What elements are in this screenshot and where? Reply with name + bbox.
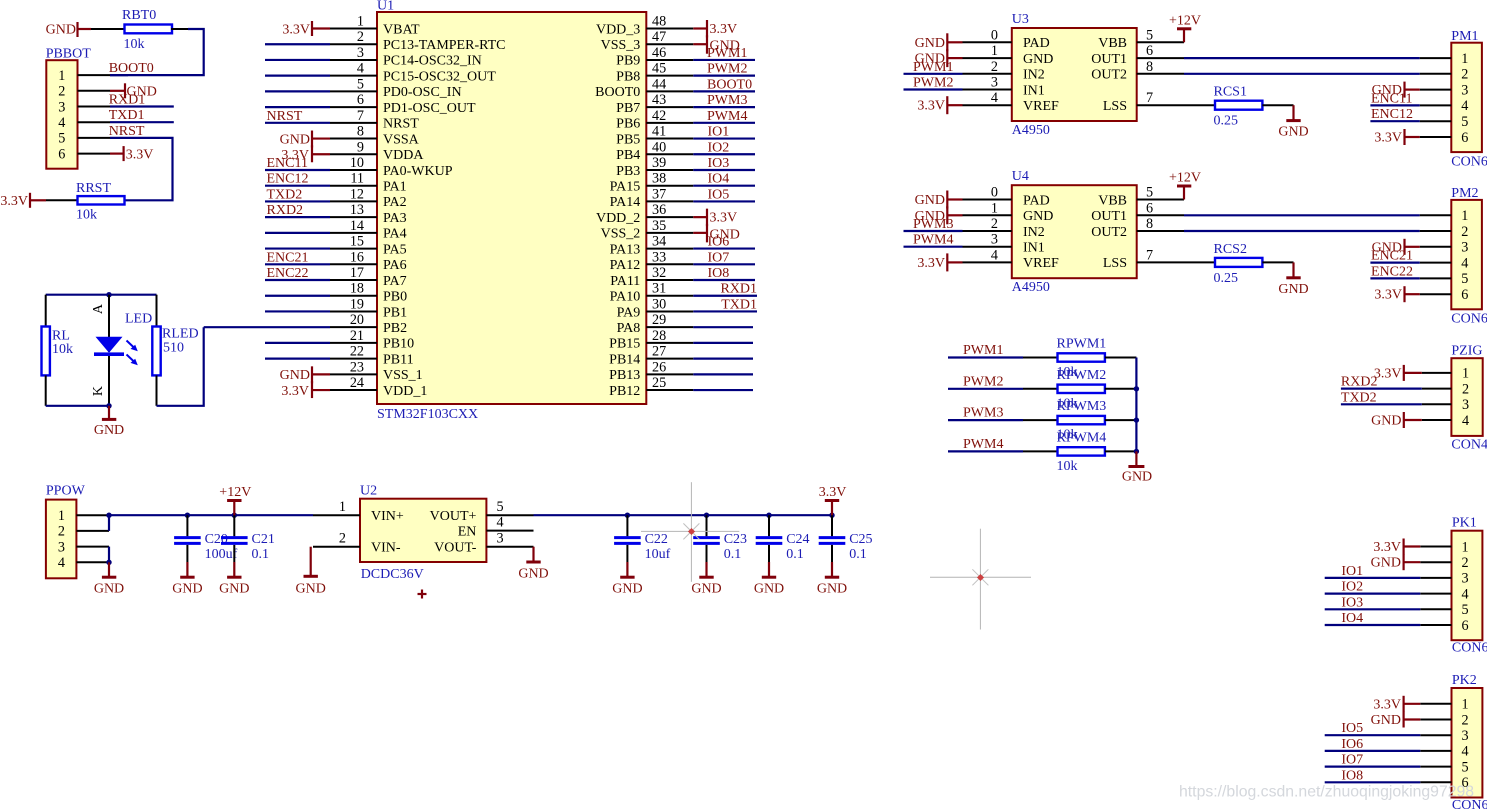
svg-text:1: 1 — [357, 14, 364, 30]
svg-text:PWM1: PWM1 — [913, 60, 953, 75]
svg-text:3.3V: 3.3V — [1374, 131, 1402, 146]
svg-text:STM32F103CXX: STM32F103CXX — [377, 407, 478, 422]
svg-text:GND: GND — [817, 581, 847, 596]
svg-text:2: 2 — [991, 59, 998, 75]
svg-text:C24: C24 — [786, 532, 809, 547]
wire LED bottom rail — [46, 405, 109, 407]
wire IO5 (PK2 pin 3) — [1325, 734, 1421, 736]
wire NRST (U1 pin 7) — [265, 122, 330, 124]
svg-text:ENC12: ENC12 — [267, 172, 309, 187]
svg-text:3: 3 — [991, 232, 998, 248]
driver U3 body — [1012, 28, 1137, 121]
svg-text:4: 4 — [1462, 413, 1469, 429]
wire U1 pin 3 — [265, 59, 330, 61]
svg-text:21: 21 — [350, 328, 364, 344]
power port GND (U2 VIN-) — [310, 547, 312, 577]
svg-text:2: 2 — [1462, 381, 1469, 397]
wire RPWM2 to tie — [1105, 388, 1137, 390]
svg-text:2: 2 — [58, 524, 65, 540]
svg-text:3.3V: 3.3V — [282, 22, 310, 37]
svg-text:CON6: CON6 — [1452, 641, 1487, 656]
svg-text:3: 3 — [1461, 82, 1468, 98]
svg-text:3: 3 — [1461, 240, 1468, 256]
svg-text:RCS2: RCS2 — [1214, 242, 1247, 257]
svg-text:DCDC36V: DCDC36V — [361, 567, 424, 582]
svg-text:PB15: PB15 — [609, 337, 640, 352]
svg-text:27: 27 — [652, 344, 666, 360]
svg-text:+12V: +12V — [219, 485, 251, 500]
svg-text:GND: GND — [46, 23, 76, 38]
junction +12V rail at PPOW — [106, 513, 111, 518]
wire IO2 (U1 pin 40) — [693, 153, 755, 155]
svg-text:7: 7 — [357, 108, 364, 124]
svg-text:0.25: 0.25 — [1214, 114, 1239, 129]
svg-text:GND: GND — [296, 582, 326, 597]
wire IO2 (PK1 pin 4) — [1325, 592, 1421, 594]
svg-text:12: 12 — [350, 186, 364, 202]
svg-text:5: 5 — [1461, 114, 1468, 130]
svg-text:25: 25 — [652, 375, 666, 391]
U4 pin 6 (OUT1) — [1137, 214, 1184, 216]
U1 pin 16 (PA6) — [330, 263, 377, 265]
svg-text:GND: GND — [1371, 556, 1401, 571]
U3 pin 8 (OUT2) — [1137, 73, 1184, 75]
svg-text:A4950: A4950 — [1012, 123, 1050, 138]
svg-text:LSS: LSS — [1103, 256, 1127, 271]
power port GND (PK2 pin 2) — [1404, 718, 1421, 720]
svg-text:3: 3 — [991, 75, 998, 91]
power port 3.3V (PM1 pin 6) — [1405, 136, 1420, 138]
svg-text:PA2: PA2 — [383, 195, 407, 210]
svg-text:PB5: PB5 — [616, 132, 640, 147]
svg-text:IO1: IO1 — [708, 125, 730, 140]
svg-text:44: 44 — [652, 76, 666, 92]
U1 pin 15 (PA5) — [330, 248, 377, 250]
svg-text:23: 23 — [350, 359, 364, 375]
svg-text:PA8: PA8 — [617, 321, 641, 336]
svg-text:4: 4 — [1461, 586, 1468, 602]
svg-text:C23: C23 — [724, 532, 747, 547]
svg-text:PWM4: PWM4 — [707, 109, 747, 124]
LED light arrows — [127, 341, 138, 366]
svg-text:PWM2: PWM2 — [963, 374, 1003, 389]
svg-text:RCS1: RCS1 — [1214, 85, 1247, 100]
svg-text:0.1: 0.1 — [786, 547, 804, 562]
svg-text:VDDA: VDDA — [383, 148, 424, 163]
U1 pin 23 (VSS_1) — [330, 373, 377, 375]
U1 pin 38 (PA15) — [646, 185, 693, 187]
wire 3.3V to RRST — [46, 199, 78, 201]
svg-text:U3: U3 — [1012, 12, 1029, 27]
svg-text:TXD2: TXD2 — [1341, 390, 1377, 405]
wire OUT2 to PM1 — [1184, 73, 1420, 75]
svg-text:RXD1: RXD1 — [720, 282, 757, 297]
svg-text:29: 29 — [652, 312, 666, 328]
svg-text:36: 36 — [652, 202, 666, 218]
U1 pin 36 (VDD_2) — [646, 216, 693, 218]
U1 pin 14 (PA4) — [330, 232, 377, 234]
svg-text:EN: EN — [458, 524, 477, 539]
wire U1 pin 6 — [265, 106, 330, 108]
connector PK2 — [1452, 688, 1483, 798]
svg-text:6: 6 — [58, 146, 65, 162]
svg-text:IO1: IO1 — [1341, 564, 1363, 579]
U1 pin 11 (PA1) — [330, 185, 377, 187]
svg-text:IO6: IO6 — [708, 235, 730, 250]
wire PWM1 (U1 pin 46) — [693, 59, 755, 61]
svg-text:3: 3 — [1462, 397, 1469, 413]
U3 pin 3 (IN1) — [963, 89, 1012, 91]
svg-text:PB11: PB11 — [383, 352, 414, 367]
svg-text:RBT0: RBT0 — [122, 8, 156, 23]
svg-text:IO4: IO4 — [1341, 611, 1363, 626]
svg-text:GND: GND — [1023, 209, 1053, 224]
svg-text:RPWM1: RPWM1 — [1057, 337, 1107, 352]
svg-text:1: 1 — [991, 43, 998, 59]
svg-text:3.3V: 3.3V — [281, 384, 309, 399]
svg-text:15: 15 — [350, 234, 364, 250]
svg-text:10k: 10k — [76, 208, 97, 223]
svg-text:IO2: IO2 — [1341, 580, 1363, 595]
svg-text:22: 22 — [350, 344, 364, 360]
U1 pin 17 (PA7) — [330, 279, 377, 281]
svg-text:U2: U2 — [360, 484, 377, 499]
svg-text:LED: LED — [125, 312, 152, 327]
U1 pin 3 (PC14-OSC32_IN) — [330, 59, 377, 61]
svg-text:38: 38 — [652, 171, 666, 187]
U4 pin 1 (GND) — [963, 214, 1012, 216]
wire PWM4 to RPWM4 — [948, 450, 1023, 452]
svg-text:13: 13 — [350, 202, 364, 218]
svg-text:PB3: PB3 — [616, 164, 640, 179]
resistor RRST — [78, 196, 125, 204]
svg-text:6: 6 — [1461, 130, 1468, 146]
capacitor C20 — [185, 513, 190, 518]
svg-text:ENC22: ENC22 — [267, 266, 309, 281]
svg-text:PB0: PB0 — [383, 290, 407, 305]
power port GND (U2 VOUT-) — [532, 547, 534, 562]
svg-text:PA0-WKUP: PA0-WKUP — [383, 164, 453, 179]
U1 pin 12 (PA2) — [330, 200, 377, 202]
U1 pin 24 (VDD_1) — [330, 389, 377, 391]
svg-text:GND: GND — [1371, 713, 1401, 728]
U1 pin 4 (PC15-OSC32_OUT) — [330, 75, 377, 77]
wire IO3 (PK1 pin 5) — [1325, 608, 1421, 610]
wire RPWM tie bus — [1135, 358, 1137, 452]
svg-text:1: 1 — [339, 499, 346, 515]
svg-text:0: 0 — [991, 185, 998, 201]
resistor RPWM2 — [1058, 385, 1105, 393]
svg-text:RPWM2: RPWM2 — [1057, 368, 1107, 383]
U4 pin 7 (LSS) — [1137, 261, 1184, 263]
svg-text:PC15-OSC32_OUT: PC15-OSC32_OUT — [383, 69, 496, 84]
svg-text:CON6: CON6 — [1451, 312, 1487, 327]
svg-text:46: 46 — [652, 45, 666, 61]
svg-text:PA11: PA11 — [610, 274, 640, 289]
svg-text:TXD2: TXD2 — [267, 187, 303, 202]
connector PPOW — [46, 500, 77, 579]
svg-text:VIN-: VIN- — [371, 541, 401, 556]
svg-text:PA9: PA9 — [617, 305, 641, 320]
power port GND (C25) — [831, 562, 833, 577]
svg-text:BOOT0: BOOT0 — [707, 77, 752, 92]
svg-text:IO2: IO2 — [708, 140, 730, 155]
wire U1 pin 25 — [693, 389, 753, 391]
U1 pin 34 (PA13) — [646, 248, 693, 250]
junction RPWM2 tie — [1134, 386, 1139, 391]
svg-text:RXD2: RXD2 — [267, 203, 304, 218]
wire PPOW pins 3-4 tie — [108, 547, 110, 563]
svg-text:37: 37 — [652, 186, 666, 202]
wire PWM3 (U4 IN2) — [904, 230, 963, 232]
svg-text:4: 4 — [58, 115, 65, 131]
wire U1 pin 2 — [265, 43, 330, 45]
svg-text:PB9: PB9 — [616, 54, 640, 69]
svg-text:PB7: PB7 — [616, 101, 640, 116]
wire U1 pin 14 — [265, 232, 330, 234]
wire U1 pin 5 — [265, 90, 330, 92]
svg-text:3.3V: 3.3V — [710, 210, 738, 225]
wire U1 pin 29 — [693, 326, 753, 328]
svg-text:5: 5 — [1461, 602, 1468, 618]
svg-text:PWM1: PWM1 — [963, 343, 1003, 358]
svg-text:10uf: 10uf — [645, 547, 671, 562]
U1 pin 1 (VBAT) — [330, 28, 377, 30]
U1 pin 2 (PC13-TAMPER-RTC) — [330, 43, 377, 45]
svg-text:ENC12: ENC12 — [1371, 107, 1413, 122]
svg-text:PK1: PK1 — [1452, 516, 1477, 531]
svg-text:PWM3: PWM3 — [707, 93, 747, 108]
U1 pin 47 (VSS_3) — [646, 43, 693, 45]
svg-text:3: 3 — [1461, 728, 1468, 744]
svg-text:PA13: PA13 — [610, 242, 641, 257]
svg-text:PB13: PB13 — [609, 368, 640, 383]
svg-text:RXD2: RXD2 — [1341, 375, 1378, 390]
U1 pin 8 (VSSA) — [330, 138, 377, 140]
svg-text:1: 1 — [991, 200, 998, 216]
svg-text:4: 4 — [991, 247, 998, 263]
wire OUT1 to PM2 — [1184, 214, 1420, 216]
power port GND (PK1 pin 2) — [1404, 561, 1421, 563]
U1 pin 7 (NRST) — [330, 122, 377, 124]
svg-text:3.3V: 3.3V — [710, 22, 738, 37]
svg-text:VREF: VREF — [1023, 256, 1059, 271]
resistor RPWM3 — [1058, 416, 1105, 424]
resistor RLED — [156, 295, 158, 327]
svg-text:48: 48 — [652, 14, 666, 30]
svg-text:RPWM4: RPWM4 — [1057, 430, 1107, 445]
svg-text:4: 4 — [497, 515, 504, 531]
svg-text:34: 34 — [652, 234, 666, 250]
svg-text:3.3V: 3.3V — [1374, 288, 1402, 303]
svg-text:U1: U1 — [377, 0, 394, 14]
svg-text:BOOT0: BOOT0 — [595, 85, 640, 100]
U1 pin 10 (PA0-WKUP) — [330, 169, 377, 171]
svg-text:GND: GND — [754, 581, 784, 596]
power port 3.3V (U3 VREF) — [947, 104, 962, 106]
svg-text:PA3: PA3 — [383, 211, 407, 226]
regulator U2 body — [360, 499, 486, 562]
svg-text:3.3V: 3.3V — [1373, 697, 1401, 712]
resistor RBT0 — [125, 25, 173, 34]
svg-text:VBB: VBB — [1098, 36, 1127, 51]
U1 pin 48 (VDD_3) — [646, 28, 693, 30]
svg-text:3: 3 — [1461, 571, 1468, 587]
svg-text:3.3V: 3.3V — [126, 147, 154, 162]
svg-text:28: 28 — [652, 328, 666, 344]
svg-text:VSS_1: VSS_1 — [383, 368, 423, 383]
svg-text:GND: GND — [1278, 125, 1308, 140]
svg-text:+12V: +12V — [1169, 171, 1201, 186]
U2 pin 4 (EN) — [486, 530, 533, 532]
U1 pin 26 (PB13) — [646, 373, 693, 375]
svg-text:3.3V: 3.3V — [917, 99, 945, 114]
svg-text:4: 4 — [991, 90, 998, 106]
wire IO1 (PK1 pin 3) — [1325, 577, 1421, 579]
wire IO6 (PK2 pin 4) — [1325, 750, 1421, 752]
U4 pin 8 (OUT2) — [1137, 230, 1184, 232]
power port GND (C24) — [768, 562, 770, 577]
svg-text:41: 41 — [652, 124, 666, 140]
wire PWM3 to RPWM3 — [948, 419, 1023, 421]
svg-text:VOUT-: VOUT- — [434, 541, 477, 556]
svg-text:IN1: IN1 — [1023, 241, 1045, 256]
wire ENC22 (PM2 pin 5) — [1370, 277, 1419, 279]
wire RBT0 to BOOT0 node — [171, 28, 188, 30]
svg-text:PWM4: PWM4 — [913, 233, 953, 248]
capacitor C23 — [704, 513, 709, 518]
U4 pin 5 (VBB) — [1137, 199, 1184, 201]
svg-text:IN2: IN2 — [1023, 225, 1045, 240]
power port GND (U3 pin 1) — [947, 57, 962, 59]
svg-text:6: 6 — [1146, 43, 1153, 59]
svg-text:IO7: IO7 — [1341, 753, 1363, 768]
U1 pin 13 (PA3) — [330, 216, 377, 218]
svg-text:24: 24 — [350, 375, 364, 391]
svg-text:19: 19 — [350, 296, 364, 312]
svg-text:7: 7 — [1146, 90, 1153, 106]
svg-text:GND: GND — [1278, 282, 1308, 297]
wire IO7 (PK2 pin 5) — [1325, 765, 1421, 767]
wire RPWM3 to tie — [1105, 419, 1137, 421]
svg-text:100uf: 100uf — [205, 547, 238, 562]
svg-text:IO7: IO7 — [708, 250, 730, 265]
svg-text:2: 2 — [339, 531, 346, 547]
wire U1 pin 4 — [265, 75, 330, 77]
power port 3.3V (U1 pin 36) — [693, 216, 707, 218]
svg-text:14: 14 — [350, 218, 364, 234]
U3 pin 2 (IN2) — [963, 73, 1012, 75]
power port GND (U1 pin 35) — [693, 232, 707, 234]
svg-text:1: 1 — [1461, 208, 1468, 224]
power port GND (U4 pin 0) — [947, 198, 962, 200]
svg-text:PA10: PA10 — [610, 290, 641, 305]
svg-text:PBBOT: PBBOT — [46, 47, 92, 62]
svg-text:PWM4: PWM4 — [963, 437, 1003, 452]
svg-text:IN1: IN1 — [1023, 83, 1045, 98]
svg-text:8: 8 — [357, 124, 364, 140]
wire ENC11 (U1 pin 10) — [265, 169, 330, 171]
svg-text:OUT1: OUT1 — [1091, 52, 1127, 67]
svg-text:IO3: IO3 — [708, 156, 730, 171]
wire TXD1 (PBBOT pin4) — [110, 121, 174, 123]
svg-text:PA4: PA4 — [383, 227, 407, 242]
svg-text:PB1: PB1 — [383, 305, 407, 320]
svg-text:3: 3 — [497, 531, 504, 547]
connector PM2 — [1451, 200, 1482, 309]
svg-text:ENC11: ENC11 — [1371, 91, 1412, 106]
wire IO8 (U1 pin 32) — [693, 279, 755, 281]
U1 pin 27 (PB14) — [646, 358, 693, 360]
resistor RPWM1 — [1058, 353, 1105, 361]
svg-text:5: 5 — [58, 131, 65, 147]
svg-text:11: 11 — [350, 171, 364, 187]
svg-text:IO8: IO8 — [708, 266, 730, 281]
U1 pin 20 (PB2) — [330, 326, 377, 328]
U4 pin 0 (PAD) — [963, 199, 1012, 201]
svg-text:2: 2 — [991, 216, 998, 232]
U3 pin 5 (VBB) — [1137, 41, 1184, 43]
svg-text:40: 40 — [652, 139, 666, 155]
svg-text:1: 1 — [1461, 51, 1468, 67]
resistor RPWM4 — [1058, 447, 1105, 455]
junction LED anode — [106, 292, 111, 297]
svg-text:3: 3 — [357, 45, 364, 61]
capacitor C25 — [829, 513, 834, 518]
svg-text:32: 32 — [652, 265, 666, 281]
svg-text:PD1-OSC_OUT: PD1-OSC_OUT — [383, 101, 476, 116]
svg-text:4: 4 — [1461, 744, 1468, 760]
U1 pin 32 (PA11) — [646, 279, 693, 281]
power port GND (RCS2) — [1292, 262, 1294, 277]
wire RXD2 (U1 pin 13) — [265, 216, 330, 218]
wire RCS2 to GND — [1262, 261, 1293, 263]
svg-text:16: 16 — [350, 249, 364, 265]
power port GND (PBBOT pin2) — [110, 90, 125, 92]
power port 3.3V (PM2 pin 6) — [1405, 293, 1420, 295]
svg-text:CON4: CON4 — [1451, 438, 1487, 453]
power port GND (PM1 pin 3) — [1405, 88, 1420, 90]
svg-text:PB8: PB8 — [616, 69, 640, 84]
wire LSS to RCS2 — [1184, 261, 1215, 263]
svg-text:C25: C25 — [849, 532, 872, 547]
wire PWM4 (U1 pin 42) — [693, 122, 755, 124]
svg-text:CON6: CON6 — [1451, 155, 1487, 170]
U1 pin 35 (VSS_2) — [646, 232, 693, 234]
power port GND (LED) — [108, 406, 110, 420]
svg-text:GND: GND — [915, 36, 945, 51]
svg-text:3.3V: 3.3V — [819, 485, 847, 500]
svg-text:U4: U4 — [1012, 169, 1029, 184]
svg-text:0.1: 0.1 — [724, 547, 742, 562]
wire TXD2 (PZIG pin 3) — [1341, 403, 1422, 405]
wire PWM1 to RPWM1 — [948, 356, 1023, 358]
svg-text:RXD1: RXD1 — [109, 93, 146, 108]
wire U1 pin 27 — [693, 358, 753, 360]
svg-text:VBAT: VBAT — [383, 22, 420, 37]
svg-text:BOOT0: BOOT0 — [109, 61, 154, 76]
U1 pin 29 (PA8) — [646, 326, 693, 328]
U1 pin 33 (PA12) — [646, 263, 693, 265]
svg-text:1: 1 — [1461, 697, 1468, 713]
U1 pin 19 (PB1) — [330, 310, 377, 312]
svg-text:GND: GND — [94, 423, 124, 438]
svg-text:NRST: NRST — [109, 124, 145, 139]
svg-text:ENC21: ENC21 — [1371, 249, 1413, 264]
svg-text:0: 0 — [991, 27, 998, 43]
svg-text:3.3V: 3.3V — [1374, 366, 1402, 381]
capacitor C24 — [766, 513, 771, 518]
